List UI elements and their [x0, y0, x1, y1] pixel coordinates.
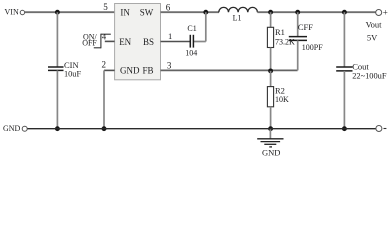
node CFF tap: [295, 10, 300, 15]
wire R1 top: [270, 12, 272, 27]
node FB R1 R2: [268, 68, 273, 73]
wire Cout bottom: [343, 71, 345, 129]
wire C1 vertical: [194, 12, 206, 41]
svg-text:OFF: OFF: [82, 39, 97, 48]
svg-text:EN: EN: [119, 37, 131, 47]
svg-text:BS: BS: [143, 37, 154, 47]
node CIN tap: [55, 10, 60, 15]
wire GND pin: [104, 70, 115, 128]
svg-text:FB: FB: [143, 65, 154, 75]
svg-text:SW: SW: [140, 7, 154, 17]
wire CFF bottom: [297, 40, 299, 70]
svg-text:104: 104: [185, 49, 197, 58]
wire BS to C1: [161, 41, 191, 43]
svg-text:22~100uF: 22~100uF: [352, 72, 387, 81]
wire R2 bottom: [270, 107, 272, 129]
inductor L1: [219, 7, 258, 22]
svg-text:5V: 5V: [367, 33, 378, 43]
switch bracket pin 4: [94, 34, 111, 49]
node Cout ground: [342, 126, 347, 131]
wire SW to L1: [161, 11, 220, 13]
svg-text:10K: 10K: [275, 95, 289, 104]
node IC ground: [102, 126, 107, 131]
svg-text:Cout: Cout: [352, 61, 369, 71]
wire Cout top: [343, 12, 345, 67]
svg-text:2: 2: [102, 60, 107, 70]
label ON/OFF: [82, 32, 97, 47]
terminal VIN: [5, 8, 25, 17]
capacitor CIN: [48, 60, 81, 79]
node Cout tap: [342, 10, 347, 15]
svg-text:C1: C1: [187, 24, 196, 33]
node R2 ground: [268, 126, 273, 131]
terminal output minus: [376, 126, 387, 132]
svg-text:R1: R1: [275, 27, 285, 37]
terminal Vout plus: [376, 7, 388, 17]
svg-text:Vout: Vout: [366, 20, 383, 30]
wire FB: [161, 69, 298, 71]
wire GND rail: [27, 128, 376, 130]
svg-text:1: 1: [168, 31, 172, 41]
wire VIN rail: [25, 11, 115, 13]
svg-text:CIN: CIN: [64, 60, 79, 70]
svg-text:3: 3: [167, 61, 172, 71]
svg-text:6: 6: [166, 2, 171, 12]
wire R1 bottom: [270, 48, 272, 71]
capacitor Cout: [336, 61, 387, 80]
node SW C1 tap: [203, 10, 208, 15]
svg-text:L1: L1: [233, 14, 242, 23]
capacitor C1: [185, 24, 197, 58]
svg-text:CFF: CFF: [298, 22, 313, 32]
wire CIN top: [56, 12, 58, 67]
wire EN: [105, 40, 115, 42]
resistor R2: [267, 86, 289, 107]
ground symbol: [257, 129, 283, 158]
IC U1: [115, 4, 161, 80]
node CIN ground: [55, 126, 60, 131]
svg-text:4: 4: [102, 32, 107, 42]
svg-text:+: +: [383, 7, 388, 17]
svg-text:IN: IN: [120, 7, 130, 17]
svg-text:5: 5: [103, 2, 108, 12]
capacitor CFF: [289, 22, 323, 52]
terminal GND: [3, 124, 27, 133]
svg-text:100PF: 100PF: [302, 43, 323, 52]
svg-text:73.2K: 73.2K: [275, 38, 295, 47]
svg-text:GND: GND: [262, 148, 280, 158]
resistor R1: [267, 27, 295, 48]
wire CIN bottom: [56, 70, 58, 128]
node R1 tap: [268, 10, 273, 15]
svg-text:VIN: VIN: [5, 8, 19, 17]
wire CFF top: [297, 12, 299, 36]
svg-text:GND: GND: [120, 65, 140, 75]
wire R2 top: [270, 71, 272, 87]
svg-text:10uF: 10uF: [64, 70, 81, 79]
svg-text:GND: GND: [3, 124, 21, 133]
wire L1 to Vout: [257, 11, 375, 13]
